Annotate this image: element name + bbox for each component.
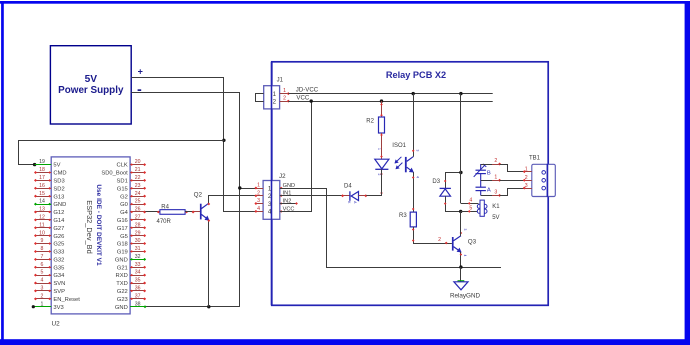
svg-text:B: B [487,170,491,176]
svg-text:4: 4 [416,176,420,178]
svg-text:G5: G5 [120,234,128,240]
svg-text:4: 4 [41,278,44,284]
svg-text:18: 18 [39,167,45,173]
svg-text:G23: G23 [117,297,128,303]
svg-text:27: 27 [135,214,141,220]
svg-text:5: 5 [469,206,472,212]
svg-text:D3: D3 [432,179,440,185]
svg-text:G2: G2 [120,194,128,200]
svg-text:GND: GND [53,202,66,208]
svg-text:3: 3 [463,229,467,231]
svg-text:G33: G33 [53,250,64,256]
svg-text:1: 1 [41,301,44,307]
svg-text:17: 17 [39,175,45,181]
svg-text:470R: 470R [157,219,172,225]
svg-text:34: 34 [135,270,141,276]
svg-text:21: 21 [135,167,141,173]
svg-text:G18: G18 [117,242,128,248]
svg-text:5V: 5V [53,163,60,169]
svg-text:G22: G22 [117,289,128,295]
svg-text:11: 11 [39,222,44,228]
svg-text:+: + [138,66,143,76]
svg-text:3: 3 [257,198,260,204]
svg-text:G13: G13 [53,194,64,200]
svg-text:26: 26 [135,207,141,213]
svg-text:G32: G32 [53,257,64,263]
svg-text:SD2: SD2 [53,186,64,192]
svg-text:Q2: Q2 [194,192,203,199]
svg-text:4: 4 [257,206,260,212]
svg-text:A: A [487,187,491,193]
svg-text:J2: J2 [279,173,286,180]
svg-text:G19: G19 [117,250,128,256]
svg-text:6: 6 [41,262,44,268]
svg-text:28: 28 [135,222,141,228]
svg-text:R2: R2 [366,119,374,125]
svg-text:ISO1: ISO1 [392,143,406,149]
svg-text:G12: G12 [53,210,64,216]
svg-text:G16: G16 [117,218,128,224]
svg-text:G4: G4 [120,210,129,216]
svg-text:RelayGND: RelayGND [450,292,481,299]
svg-text:5V: 5V [492,215,499,221]
svg-text:1: 1 [273,91,277,98]
svg-text:31: 31 [135,246,141,252]
svg-text:2: 2 [283,96,286,102]
svg-text:G26: G26 [53,234,64,240]
svg-text:35: 35 [135,278,141,284]
svg-text:SVN: SVN [53,281,65,287]
svg-text:G27: G27 [53,226,64,232]
svg-text:2: 2 [494,158,497,164]
svg-text:20: 20 [135,159,141,165]
svg-text:G14: G14 [53,218,65,224]
svg-text:3: 3 [494,190,497,196]
svg-text:GND: GND [115,305,128,311]
svg-text:16: 16 [39,183,45,189]
svg-text:2: 2 [257,190,260,196]
svg-text:24: 24 [135,191,141,197]
svg-text:CLK: CLK [117,163,128,169]
svg-text:SVP: SVP [53,289,65,295]
svg-text:2: 2 [525,175,528,181]
svg-text:EN_Reset: EN_Reset [53,297,80,303]
svg-text:37: 37 [135,293,141,299]
svg-text:3: 3 [525,183,528,189]
svg-text:Power Supply: Power Supply [58,85,124,96]
svg-text:38: 38 [135,301,141,307]
svg-text:32: 32 [135,254,141,260]
svg-text:3: 3 [41,286,44,292]
svg-text:14: 14 [39,199,45,205]
svg-text:R3: R3 [399,213,407,219]
svg-text:9: 9 [41,238,44,244]
svg-text:Relay PCB X2: Relay PCB X2 [386,70,446,80]
svg-text:CMD: CMD [53,171,66,177]
svg-text:15: 15 [39,191,45,197]
svg-text:U2: U2 [52,321,61,328]
svg-text:D4: D4 [344,183,352,189]
svg-text:13: 13 [39,207,45,213]
svg-text:Q3: Q3 [468,239,477,246]
svg-text:2: 2 [438,237,441,243]
svg-text:2: 2 [273,99,277,106]
svg-text:4: 4 [463,255,467,257]
svg-text:4: 4 [469,198,472,204]
svg-text:TB1: TB1 [529,156,541,162]
svg-text:3V3: 3V3 [53,305,63,311]
svg-text:K1: K1 [492,204,500,210]
svg-text:22: 22 [135,175,141,181]
svg-text:33: 33 [135,262,141,268]
svg-text:R4: R4 [161,204,169,210]
svg-text:5: 5 [41,270,44,276]
svg-text:2: 2 [377,174,381,176]
svg-text:12: 12 [39,214,45,220]
svg-text:1: 1 [377,148,381,150]
svg-text:36: 36 [135,286,141,292]
svg-text:1: 1 [283,88,286,94]
svg-text:G0: G0 [120,202,128,208]
svg-text:G21: G21 [117,265,128,271]
svg-text:TXD: TXD [116,281,128,287]
svg-text:30: 30 [135,238,141,244]
svg-text:G17: G17 [117,226,128,232]
svg-text:3: 3 [416,150,420,152]
svg-text:G15: G15 [117,186,128,192]
svg-text:SD0_Boot: SD0_Boot [101,171,128,177]
svg-text:G25: G25 [53,242,64,248]
svg-text:Use IDE - DOIT DEVKIT V1: Use IDE - DOIT DEVKIT V1 [95,184,102,266]
svg-text:2: 2 [41,293,44,299]
svg-text:29: 29 [135,230,141,236]
svg-text:8: 8 [41,246,44,252]
svg-text:1: 1 [494,174,497,180]
svg-text:5V: 5V [85,74,98,85]
svg-text:SD1: SD1 [117,178,128,184]
svg-text:G34: G34 [53,273,65,279]
svg-text:SD3: SD3 [53,178,64,184]
svg-text:1: 1 [257,183,260,189]
svg-text:ESP32_Dev_Bd: ESP32_Dev_Bd [85,200,94,253]
svg-text:RXD: RXD [116,273,128,279]
svg-text:25: 25 [135,199,141,205]
svg-text:G35: G35 [53,265,64,271]
svg-text:JD-VCC: JD-VCC [296,86,319,93]
svg-text:J1: J1 [277,78,284,84]
svg-text:GND: GND [115,257,128,263]
svg-text:7: 7 [41,254,44,260]
svg-text:19: 19 [39,159,45,165]
svg-text:10: 10 [39,230,45,236]
svg-text:1: 1 [525,166,528,172]
svg-text:VCC: VCC [296,94,309,101]
svg-text:23: 23 [135,183,141,189]
